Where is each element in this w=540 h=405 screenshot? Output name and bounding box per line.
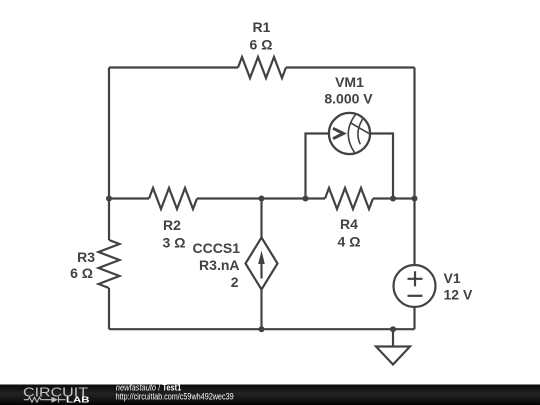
junction node at CCCS1 top (259, 196, 265, 202)
logo resistor squiggle and diode (24, 397, 66, 403)
svg-text:CCCS1: CCCS1 (193, 240, 241, 256)
current source CCCS1 arrowhead (258, 251, 265, 265)
resistor R4 (325, 188, 373, 209)
wire right rail lower (413, 308, 415, 329)
svg-text:2: 2 (231, 274, 239, 290)
voltage source V1 body (394, 265, 436, 307)
current source CCCS1 diamond (246, 238, 278, 290)
svg-text:R3.nA: R3.nA (199, 257, 239, 273)
svg-text:6 Ω: 6 Ω (250, 37, 273, 53)
wire VM1 left lead (306, 134, 329, 199)
wire left rail lower (108, 288, 110, 329)
voltage source V1 minus sign (408, 295, 423, 297)
junction node at left rail / middle wire (106, 196, 112, 202)
wire left rail middle (108, 199, 110, 241)
wire bottom (109, 328, 415, 330)
current source CCCS1 arrow shaft (260, 260, 262, 279)
junction node at VM1 right lead (390, 196, 396, 202)
wire top-right segment (286, 66, 415, 68)
svg-text:LAB: LAB (66, 396, 90, 405)
svg-text:R4: R4 (340, 216, 358, 232)
wire CCCS1 top stub (260, 199, 262, 238)
svg-text:R3: R3 (77, 249, 95, 265)
ground symbol (376, 347, 410, 365)
voltmeter VM1 polarity mark (333, 128, 344, 138)
svg-text:http://circuitlab.com/c59wh492: http://circuitlab.com/c59wh492wec39 (116, 392, 234, 402)
voltage source V1 plus sign (408, 271, 423, 286)
svg-text:8.000 V: 8.000 V (324, 91, 373, 107)
voltmeter VM1 dial arc 2 (358, 119, 363, 144)
wire left rail upper (108, 68, 110, 199)
wire middle-right segment (373, 197, 415, 199)
svg-text:R1: R1 (253, 19, 271, 35)
wire top-left segment (109, 66, 238, 68)
svg-text:R2: R2 (163, 217, 181, 233)
svg-text:V1: V1 (444, 270, 461, 286)
svg-text:4 Ω: 4 Ω (338, 234, 361, 250)
resistor R2 (149, 188, 197, 209)
voltmeter VM1 body (329, 113, 370, 154)
svg-text:VM1: VM1 (335, 74, 364, 90)
wire CCCS1 bottom stub (260, 290, 262, 330)
wire VM1 right lead (371, 134, 393, 199)
wire right rail upper (413, 68, 415, 265)
svg-text:6 Ω: 6 Ω (70, 265, 93, 281)
svg-text:12 V: 12 V (444, 287, 473, 303)
voltmeter VM1 dial arc 1 (348, 115, 355, 153)
junction node at CCCS1 bottom (259, 326, 265, 332)
wire middle-center segment (197, 197, 325, 199)
resistor R3 (99, 240, 120, 288)
wire ground stub (392, 329, 394, 346)
junction node at right rail / middle wire (412, 196, 418, 202)
wire middle-left segment (109, 197, 149, 199)
junction node at VM1 left lead (303, 196, 309, 202)
junction node at ground (390, 326, 396, 332)
voltmeter VM1 needle (350, 123, 370, 134)
resistor R1 (238, 57, 286, 78)
svg-text:3 Ω: 3 Ω (163, 235, 186, 251)
